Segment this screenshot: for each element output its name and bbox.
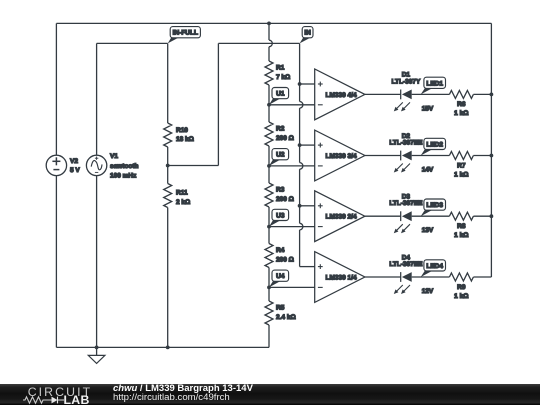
wire right pull-up rail xyxy=(490,23,492,277)
svg-text:LM339 2/4: LM339 2/4 xyxy=(326,214,357,221)
node flag U4 xyxy=(269,270,289,287)
svg-text:R8: R8 xyxy=(457,223,466,230)
CircuitLab logo text xyxy=(28,385,93,399)
svg-text:7 kΩ: 7 kΩ xyxy=(276,74,290,81)
wire R1 to U1 node xyxy=(268,85,270,105)
node IN bus tap comparator 3 xyxy=(298,204,302,208)
wire U2 to R3 xyxy=(268,166,270,183)
wire V2 bottom to ground rail xyxy=(55,176,57,348)
svg-text:R11: R11 xyxy=(176,190,188,197)
wire V1 to R10 (IN-FULL net) xyxy=(97,42,168,44)
svg-text:1 kΩ: 1 kΩ xyxy=(454,171,468,178)
svg-text:LTL-307EE: LTL-307EE xyxy=(389,140,423,147)
wire U4 node to - input xyxy=(269,286,315,288)
wire U3 to R4 xyxy=(268,227,270,244)
node flag LED2 xyxy=(421,138,446,155)
wire R11 bottom to ground rail xyxy=(167,208,169,348)
svg-text:R3: R3 xyxy=(276,187,285,194)
svg-text:U3: U3 xyxy=(276,212,285,219)
node R11 ground junction xyxy=(166,346,170,350)
LED D1 LTL-307Y xyxy=(394,90,412,112)
wire IN bus segment xyxy=(299,230,301,267)
wire + input stub comparator 1 xyxy=(300,83,315,85)
node U3 junction xyxy=(267,225,271,229)
resistor R2 xyxy=(265,122,273,146)
svg-text:LED2: LED2 xyxy=(426,141,443,148)
svg-text:5 V: 5 V xyxy=(70,167,80,174)
svg-text:12V: 12V xyxy=(422,288,434,295)
op-amp U1 comparator LM339 4/4 xyxy=(315,69,365,120)
wire V1 bottom xyxy=(96,176,98,348)
wire + input stub comparator 3 xyxy=(300,205,315,207)
resistor R6 xyxy=(449,90,473,98)
svg-text:R2: R2 xyxy=(276,126,285,133)
wire V2 top to rail xyxy=(55,23,57,155)
LED D4 LTL-307EE xyxy=(394,272,412,294)
wire diode D4 to R9 xyxy=(412,276,450,278)
resistor R8 xyxy=(449,212,473,220)
node flag U2 xyxy=(269,149,289,166)
node flag LED1 xyxy=(421,77,446,94)
wire R10 to divider junction xyxy=(167,147,169,166)
voltage source V1 sawtooth xyxy=(86,155,106,175)
node flag LED3 xyxy=(421,199,446,216)
svg-text:R10: R10 xyxy=(176,127,188,134)
wire R11 top xyxy=(167,166,169,184)
op-amp U2 comparator LM339 3/4 xyxy=(315,130,365,181)
svg-text:U2: U2 xyxy=(276,152,285,159)
wire IN bus segment xyxy=(299,43,301,101)
node flag IN xyxy=(300,27,313,44)
wire comparator 4 output xyxy=(365,276,401,278)
svg-text:R7: R7 xyxy=(457,162,466,169)
wire chain feed upper (rail to hop) xyxy=(268,23,270,40)
svg-text:LTL-307EE: LTL-307EE xyxy=(389,200,423,207)
LED D2 LTL-307EE xyxy=(394,151,412,173)
node IN bus tap comparator 2 xyxy=(298,143,302,147)
node flag U1 xyxy=(269,88,289,105)
wire R5 to ground rail xyxy=(268,325,270,347)
wire comparator 2 output xyxy=(365,155,401,157)
svg-text:LM339 1/4: LM339 1/4 xyxy=(326,274,357,281)
svg-text:200 Ω: 200 Ω xyxy=(276,257,294,264)
wire U4 to R5 xyxy=(268,287,270,301)
resistor R3 xyxy=(265,183,273,207)
voltage source V2 xyxy=(46,155,66,175)
wire top supply rail xyxy=(56,22,491,24)
svg-text:200 Ω: 200 Ω xyxy=(276,135,294,142)
node IN bus tap comparator 1 xyxy=(298,82,302,86)
svg-text:200 Ω: 200 Ω xyxy=(276,196,294,203)
resistor R11 xyxy=(164,184,172,208)
svg-text:15V: 15V xyxy=(422,105,434,112)
wire hop IN bus over U3 wire xyxy=(300,223,303,230)
wire U3 node to - input xyxy=(269,226,315,228)
wire R8 to right rail xyxy=(473,215,491,217)
footer bar xyxy=(0,384,540,405)
op-amp U3 comparator LM339 2/4 xyxy=(315,191,365,242)
wire diode D3 to R8 xyxy=(412,215,450,217)
resistor R10 xyxy=(164,123,172,147)
resistor R7 xyxy=(449,152,473,160)
wire R3 to U3 node xyxy=(268,207,270,227)
wire V1 top xyxy=(96,43,98,155)
node flag LED4 xyxy=(421,260,446,277)
wire link vertical xyxy=(217,43,219,165)
LED D3 LTL-307EE xyxy=(394,211,412,233)
svg-text:V2: V2 xyxy=(70,158,78,165)
resistor R9 xyxy=(449,273,473,281)
svg-text:LED4: LED4 xyxy=(426,263,443,270)
wire + input stub comparator 2 xyxy=(300,144,315,146)
node divider midpoint junction xyxy=(166,164,170,168)
wire diode D1 to R6 xyxy=(412,93,450,95)
svg-text:V1: V1 xyxy=(110,153,118,160)
node U1 junction xyxy=(267,103,271,107)
svg-text:U4: U4 xyxy=(276,273,285,280)
wire chain feed lower (hop to R1) xyxy=(268,47,270,61)
svg-text:R4: R4 xyxy=(276,247,285,254)
svg-text:1 kΩ: 1 kΩ xyxy=(454,110,468,117)
wire IN bus segment xyxy=(299,108,301,163)
svg-text:LED3: LED3 xyxy=(426,202,443,209)
wire R6 to right rail xyxy=(473,93,491,95)
footer url xyxy=(113,392,230,403)
wire U1 node to - input xyxy=(269,104,315,106)
svg-text:R9: R9 xyxy=(457,284,466,291)
svg-text:sawtooth: sawtooth xyxy=(110,163,139,170)
node R8 right rail junction xyxy=(490,214,494,218)
svg-text:100 mHz: 100 mHz xyxy=(110,172,137,179)
svg-text:R6: R6 xyxy=(457,101,466,108)
node V1 ground junction xyxy=(95,346,99,350)
wire bottom ground rail xyxy=(56,346,269,348)
svg-text:LTL-307Y: LTL-307Y xyxy=(392,78,421,85)
node R7 right rail junction xyxy=(490,154,494,158)
wire R2 to U2 node xyxy=(268,146,270,166)
svg-text:18 kΩ: 18 kΩ xyxy=(176,136,194,143)
svg-text:IN: IN xyxy=(304,30,311,37)
op-amp U4 comparator LM339 1/4 xyxy=(315,252,365,303)
svg-text:13V: 13V xyxy=(422,227,434,234)
svg-text:14V: 14V xyxy=(422,167,434,174)
wire divider junction to link xyxy=(168,165,219,167)
node flag U3 xyxy=(269,209,289,226)
wire U1 to R2 xyxy=(268,105,270,122)
svg-text:R1: R1 xyxy=(276,65,285,72)
wire comparator 1 output xyxy=(365,93,401,95)
svg-text:1 kΩ: 1 kΩ xyxy=(454,232,468,239)
resistor R4 xyxy=(265,244,273,268)
footer title xyxy=(113,383,253,394)
svg-text:LED1: LED1 xyxy=(426,80,443,87)
node U2 junction xyxy=(267,164,271,168)
logo resistor-diode glyph xyxy=(21,395,67,405)
wire R4 to U4 node xyxy=(268,268,270,288)
svg-text:1 kΩ: 1 kΩ xyxy=(454,293,468,300)
resistor R5 xyxy=(265,301,273,325)
svg-text:IN-FULL: IN-FULL xyxy=(173,30,198,37)
svg-text:LTL-307EE: LTL-307EE xyxy=(389,261,423,268)
node R6 right rail junction xyxy=(490,93,494,97)
wire IN bus segment xyxy=(299,169,301,223)
wire + input stub comparator 4 xyxy=(300,266,315,268)
node U4 junction xyxy=(267,286,271,290)
wire hop over IN wire xyxy=(269,40,272,47)
wire R9 to right rail xyxy=(473,276,491,278)
svg-text:R5: R5 xyxy=(276,305,285,312)
wire R7 to right rail xyxy=(473,155,491,157)
svg-text:U1: U1 xyxy=(276,91,285,98)
wire diode D2 to R7 xyxy=(412,155,450,157)
svg-text:2.4 kΩ: 2.4 kΩ xyxy=(276,314,296,321)
resistor R1 xyxy=(265,61,273,85)
wire U2 node to - input xyxy=(269,165,315,167)
wire hop IN bus over U2 wire xyxy=(300,163,303,170)
svg-text:2 kΩ: 2 kΩ xyxy=(176,199,190,206)
node flag IN-FULL xyxy=(168,27,201,44)
wire comparator 3 output xyxy=(365,215,401,217)
node top rail / chain junction xyxy=(267,22,271,26)
wire hop IN bus over U1 wire xyxy=(300,102,303,109)
svg-text:LM339 3/4: LM339 3/4 xyxy=(326,153,357,160)
svg-text:LM339 4/4: LM339 4/4 xyxy=(326,92,357,99)
ground xyxy=(88,347,105,363)
wire R10 feed xyxy=(167,43,169,123)
wire link to IN flag xyxy=(218,42,299,44)
